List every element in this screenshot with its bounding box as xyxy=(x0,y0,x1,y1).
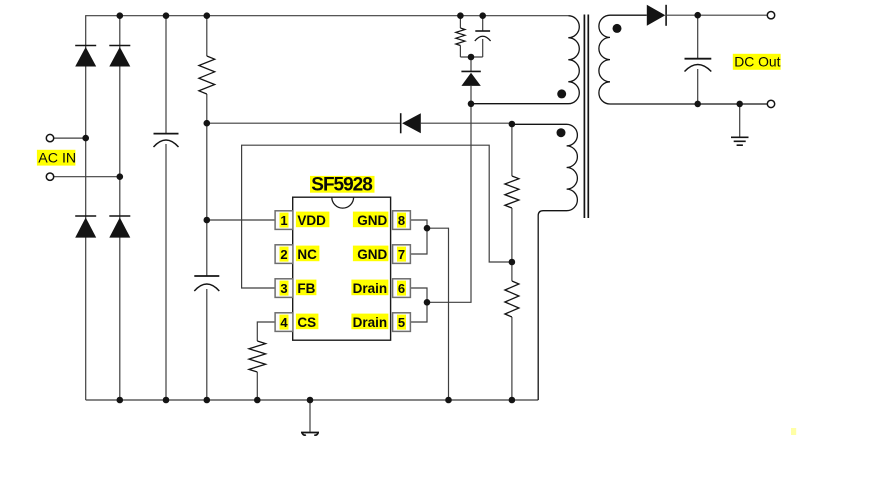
svg-text:Drain: Drain xyxy=(353,281,388,296)
transformer T1 aux winding xyxy=(512,124,578,400)
pin 3 box xyxy=(275,279,293,298)
capacitor C4 output xyxy=(685,15,712,104)
transformer T1 primary winding xyxy=(471,16,579,104)
wire AC line top xyxy=(54,137,86,139)
node aux phase dot xyxy=(557,128,566,137)
svg-text:3: 3 xyxy=(280,281,287,296)
ground earth secondary xyxy=(731,104,749,145)
node primary phase dot xyxy=(557,89,566,98)
transformer T1 core xyxy=(584,15,588,219)
pin label GND 7 xyxy=(353,246,389,262)
wire Drain pins 5-6 bracket xyxy=(411,288,427,322)
terminal AC bottom xyxy=(46,173,53,180)
capacitor C2 vdd xyxy=(194,276,219,400)
capacitor C3 snubber xyxy=(475,16,491,57)
svg-text:FB: FB xyxy=(297,281,315,296)
wire snubber bottom join xyxy=(460,57,482,71)
pin 7 box xyxy=(393,245,411,264)
junction dots bottom rail xyxy=(117,397,516,404)
pin 4 box xyxy=(275,313,293,332)
svg-text:4: 4 xyxy=(280,315,288,330)
junction dots AC input xyxy=(82,135,123,180)
svg-text:7: 7 xyxy=(398,247,405,262)
terminal AC top xyxy=(46,134,53,141)
svg-text:DC Out: DC Out xyxy=(734,53,780,69)
svg-text:Drain: Drain xyxy=(353,315,388,330)
junction dots top rail xyxy=(117,12,487,19)
svg-text:CS: CS xyxy=(297,315,316,330)
node stray yellow mark xyxy=(791,428,796,435)
pin label Drain 6 xyxy=(351,280,388,296)
wire drain to primary xyxy=(427,104,471,302)
diode D3 xyxy=(75,216,96,238)
svg-text:SF5928: SF5928 xyxy=(311,175,373,196)
pin 5 box xyxy=(393,313,411,332)
pin 1 box xyxy=(275,211,293,230)
svg-text:8: 8 xyxy=(398,213,405,228)
svg-text:2: 2 xyxy=(280,247,287,262)
wire GND to bottom rail xyxy=(427,228,449,400)
op-amp U1 SF5928 body xyxy=(293,197,391,340)
resistor R3 divider upper xyxy=(505,124,519,281)
svg-text:AC IN: AC IN xyxy=(38,150,76,166)
diode D4 xyxy=(109,216,130,238)
junction dots IC side xyxy=(424,225,516,306)
svg-text:NC: NC xyxy=(297,247,317,262)
pin 2 box xyxy=(275,245,293,264)
wire top rail xyxy=(86,16,569,400)
resistor R2 snubber xyxy=(456,16,465,57)
node secondary phase dot xyxy=(613,24,622,33)
wire AC line bottom xyxy=(54,176,120,178)
junction dots vdd line xyxy=(204,120,211,223)
terminal DC out minus xyxy=(767,100,774,107)
wire CS pin4 xyxy=(257,322,275,341)
wire FB loop pin3 xyxy=(242,145,512,288)
diode D1 xyxy=(75,46,96,67)
svg-text:GND: GND xyxy=(357,247,387,262)
wire aux rectifier line xyxy=(207,122,512,124)
svg-text:6: 6 xyxy=(398,281,405,296)
resistor R5 CS sense xyxy=(249,341,266,400)
terminal DC out plus xyxy=(767,12,774,19)
svg-text:5: 5 xyxy=(398,315,405,330)
pin label CS xyxy=(296,314,319,330)
resistor R1 startup xyxy=(199,16,215,276)
svg-text:GND: GND xyxy=(357,213,387,228)
label SF5928 xyxy=(310,175,375,196)
pin label Drain 5 xyxy=(351,314,388,330)
svg-text:1: 1 xyxy=(280,213,287,228)
label AC IN xyxy=(37,150,76,167)
resistor R4 divider lower xyxy=(505,281,519,400)
diode D7 output xyxy=(647,5,768,26)
diode D5 snubber xyxy=(461,71,480,103)
ground chassis primary xyxy=(301,400,319,435)
junction dots secondary xyxy=(694,12,743,107)
transformer T1 secondary winding xyxy=(599,15,768,104)
pin label GND 8 xyxy=(353,212,389,228)
pin 8 box xyxy=(393,211,411,230)
pin label VDD xyxy=(296,212,330,228)
wire VDD pin1 to supply line xyxy=(207,219,275,221)
wire GND pins 7-8 bracket xyxy=(411,220,427,254)
pin 6 box xyxy=(393,279,411,298)
junction dots snubber and primary xyxy=(468,54,516,128)
pin label NC xyxy=(296,246,320,262)
wire bridge right leg xyxy=(119,16,121,400)
wire bottom rail xyxy=(86,399,539,401)
diode D6 aux xyxy=(401,113,421,133)
svg-text:VDD: VDD xyxy=(297,213,326,228)
capacitor C1 bulk xyxy=(154,16,179,400)
diode D2 xyxy=(109,46,130,67)
pin label FB xyxy=(296,280,317,296)
label DC Out xyxy=(733,53,781,70)
